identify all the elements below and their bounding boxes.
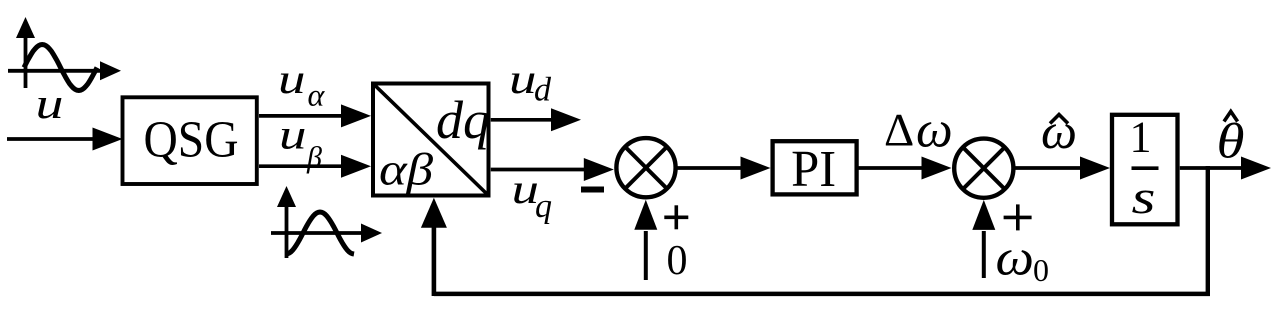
feedback wire: down from output node — [1206, 166, 1210, 294]
wire u_d output — [491, 118, 552, 122]
wire: zero reference input arrow into S1 — [644, 231, 648, 280]
wire PI to S2 — [857, 166, 923, 170]
svg-text:αβ: αβ — [379, 144, 433, 195]
svg-text:0: 0 — [1033, 252, 1049, 288]
feedback wire: up into transform block — [432, 227, 437, 296]
svg-text:dq: dq — [436, 90, 490, 150]
block PI controller — [773, 141, 857, 194]
input sine wave icon — [8, 36, 101, 91]
svg-text:θ: θ — [1217, 113, 1245, 169]
svg-text:d: d — [534, 72, 552, 109]
output sine wave icon below QSG — [271, 205, 362, 258]
wire u_beta: QSG to transform block — [259, 164, 342, 168]
svg-text:PI: PI — [791, 141, 836, 198]
svg-text:ω: ω — [996, 230, 1035, 287]
svg-text:u: u — [36, 81, 64, 128]
svg-text:ω: ω — [916, 101, 953, 158]
summing junction S1 (circle with X) — [616, 138, 675, 197]
wire u_alpha: QSG to transform block — [259, 114, 342, 118]
minus sign at summing junction S1 — [581, 187, 604, 193]
block dq / alpha-beta transform — [373, 84, 489, 196]
summing junction S2 (circle with X) — [954, 139, 1013, 198]
svg-text:s: s — [1132, 171, 1156, 224]
wire S1 to PI — [678, 166, 743, 170]
svg-text:u: u — [278, 57, 306, 103]
wire: omega_0 feedforward input arrow into S2 — [982, 231, 986, 278]
plus sign at S2 — [1004, 204, 1032, 230]
wire theta-hat output — [1180, 166, 1242, 170]
block QSG — [123, 97, 257, 184]
block integrator 1/s — [1112, 115, 1178, 225]
fraction bar — [1132, 166, 1159, 170]
svg-text:q: q — [535, 188, 552, 225]
svg-text:1: 1 — [1130, 113, 1152, 162]
svg-text:QSG: QSG — [144, 112, 239, 169]
diagonal of transform block — [373, 84, 489, 196]
svg-text:u: u — [509, 57, 537, 103]
wire u_q to summing junction — [491, 168, 585, 172]
svg-text:Δ: Δ — [884, 105, 914, 157]
plus sign at S1 — [664, 205, 688, 229]
wire: input u arrow into QSG — [7, 137, 94, 141]
svg-text:u: u — [279, 113, 307, 159]
svg-text:α: α — [308, 77, 326, 113]
wire S2 to integrator — [1014, 166, 1081, 170]
svg-text:0: 0 — [667, 238, 688, 284]
feedback wire: bottom horizontal — [434, 292, 1210, 297]
svg-text:β: β — [306, 141, 322, 174]
